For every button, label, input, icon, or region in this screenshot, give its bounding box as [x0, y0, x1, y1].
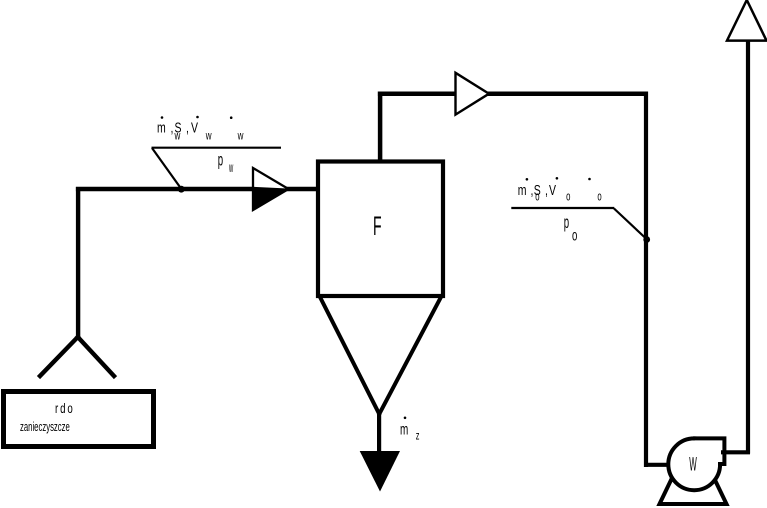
label: m z [400, 417, 420, 444]
flow arrow A2 open [456, 73, 490, 115]
svg-text:w: w [237, 130, 244, 143]
wire: fan inlet stub [644, 463, 674, 467]
svg-text:V: V [191, 119, 198, 136]
svg-text:w: w [228, 160, 233, 176]
svg-text:w: w [174, 130, 181, 143]
wire: fan outlet jog [721, 450, 750, 454]
svg-text:W: W [689, 455, 697, 476]
svg-text:m: m [400, 420, 408, 438]
wire: stack riser [746, 40, 750, 454]
svg-text:m: m [157, 119, 166, 136]
wire: inlet riser vertical [76, 187, 80, 339]
svg-text:rdo: rdo [55, 402, 75, 417]
svg-text:z: z [416, 430, 420, 443]
wire: downcomer to fan [644, 92, 648, 468]
label: m-dot w stream, numerator [157, 116, 244, 143]
wire: top header pipe [378, 91, 648, 96]
hopper cone [321, 298, 441, 414]
leader line to downcomer junction [614, 209, 647, 240]
svg-text:o: o [566, 191, 570, 204]
svg-text:p: p [218, 149, 223, 169]
wire: hopper spout [377, 414, 381, 453]
source box [4, 392, 154, 447]
label: p o denominator [564, 212, 578, 244]
junction dot on downcomer [643, 236, 650, 243]
svg-text:zanieczyszcze: zanieczyszcze [20, 421, 70, 434]
fraction bar o [511, 207, 614, 209]
leader line to inlet junction [152, 148, 181, 189]
svg-text:,: , [171, 119, 174, 136]
svg-text:,: , [531, 181, 534, 198]
junction dot on inlet pipe [178, 186, 185, 193]
stack outlet triangle [727, 0, 767, 41]
svg-text:o: o [597, 191, 601, 204]
wire: inlet pipe horizontal [76, 187, 316, 191]
svg-text:V: V [549, 181, 556, 198]
svg-text:,: , [186, 119, 189, 136]
svg-text:F: F [373, 211, 382, 241]
svg-text:o: o [572, 226, 577, 244]
filter F box [318, 162, 443, 297]
dust arrow filled [360, 451, 400, 492]
label: p w denominator [218, 149, 234, 176]
label: m-dot o stream, numerator [518, 177, 602, 204]
svg-text:,: , [545, 181, 548, 198]
svg-text:m: m [518, 181, 527, 198]
fraction bar w [152, 147, 282, 149]
fan base pedestal [660, 478, 727, 504]
wire: F top stub [378, 92, 383, 163]
Y fork collector [40, 337, 114, 376]
svg-text:w: w [205, 130, 212, 143]
fan W scroll [668, 438, 724, 490]
svg-text:p: p [564, 212, 569, 232]
flow arrow A1 half-filled [253, 168, 289, 211]
svg-text:o: o [535, 191, 539, 204]
